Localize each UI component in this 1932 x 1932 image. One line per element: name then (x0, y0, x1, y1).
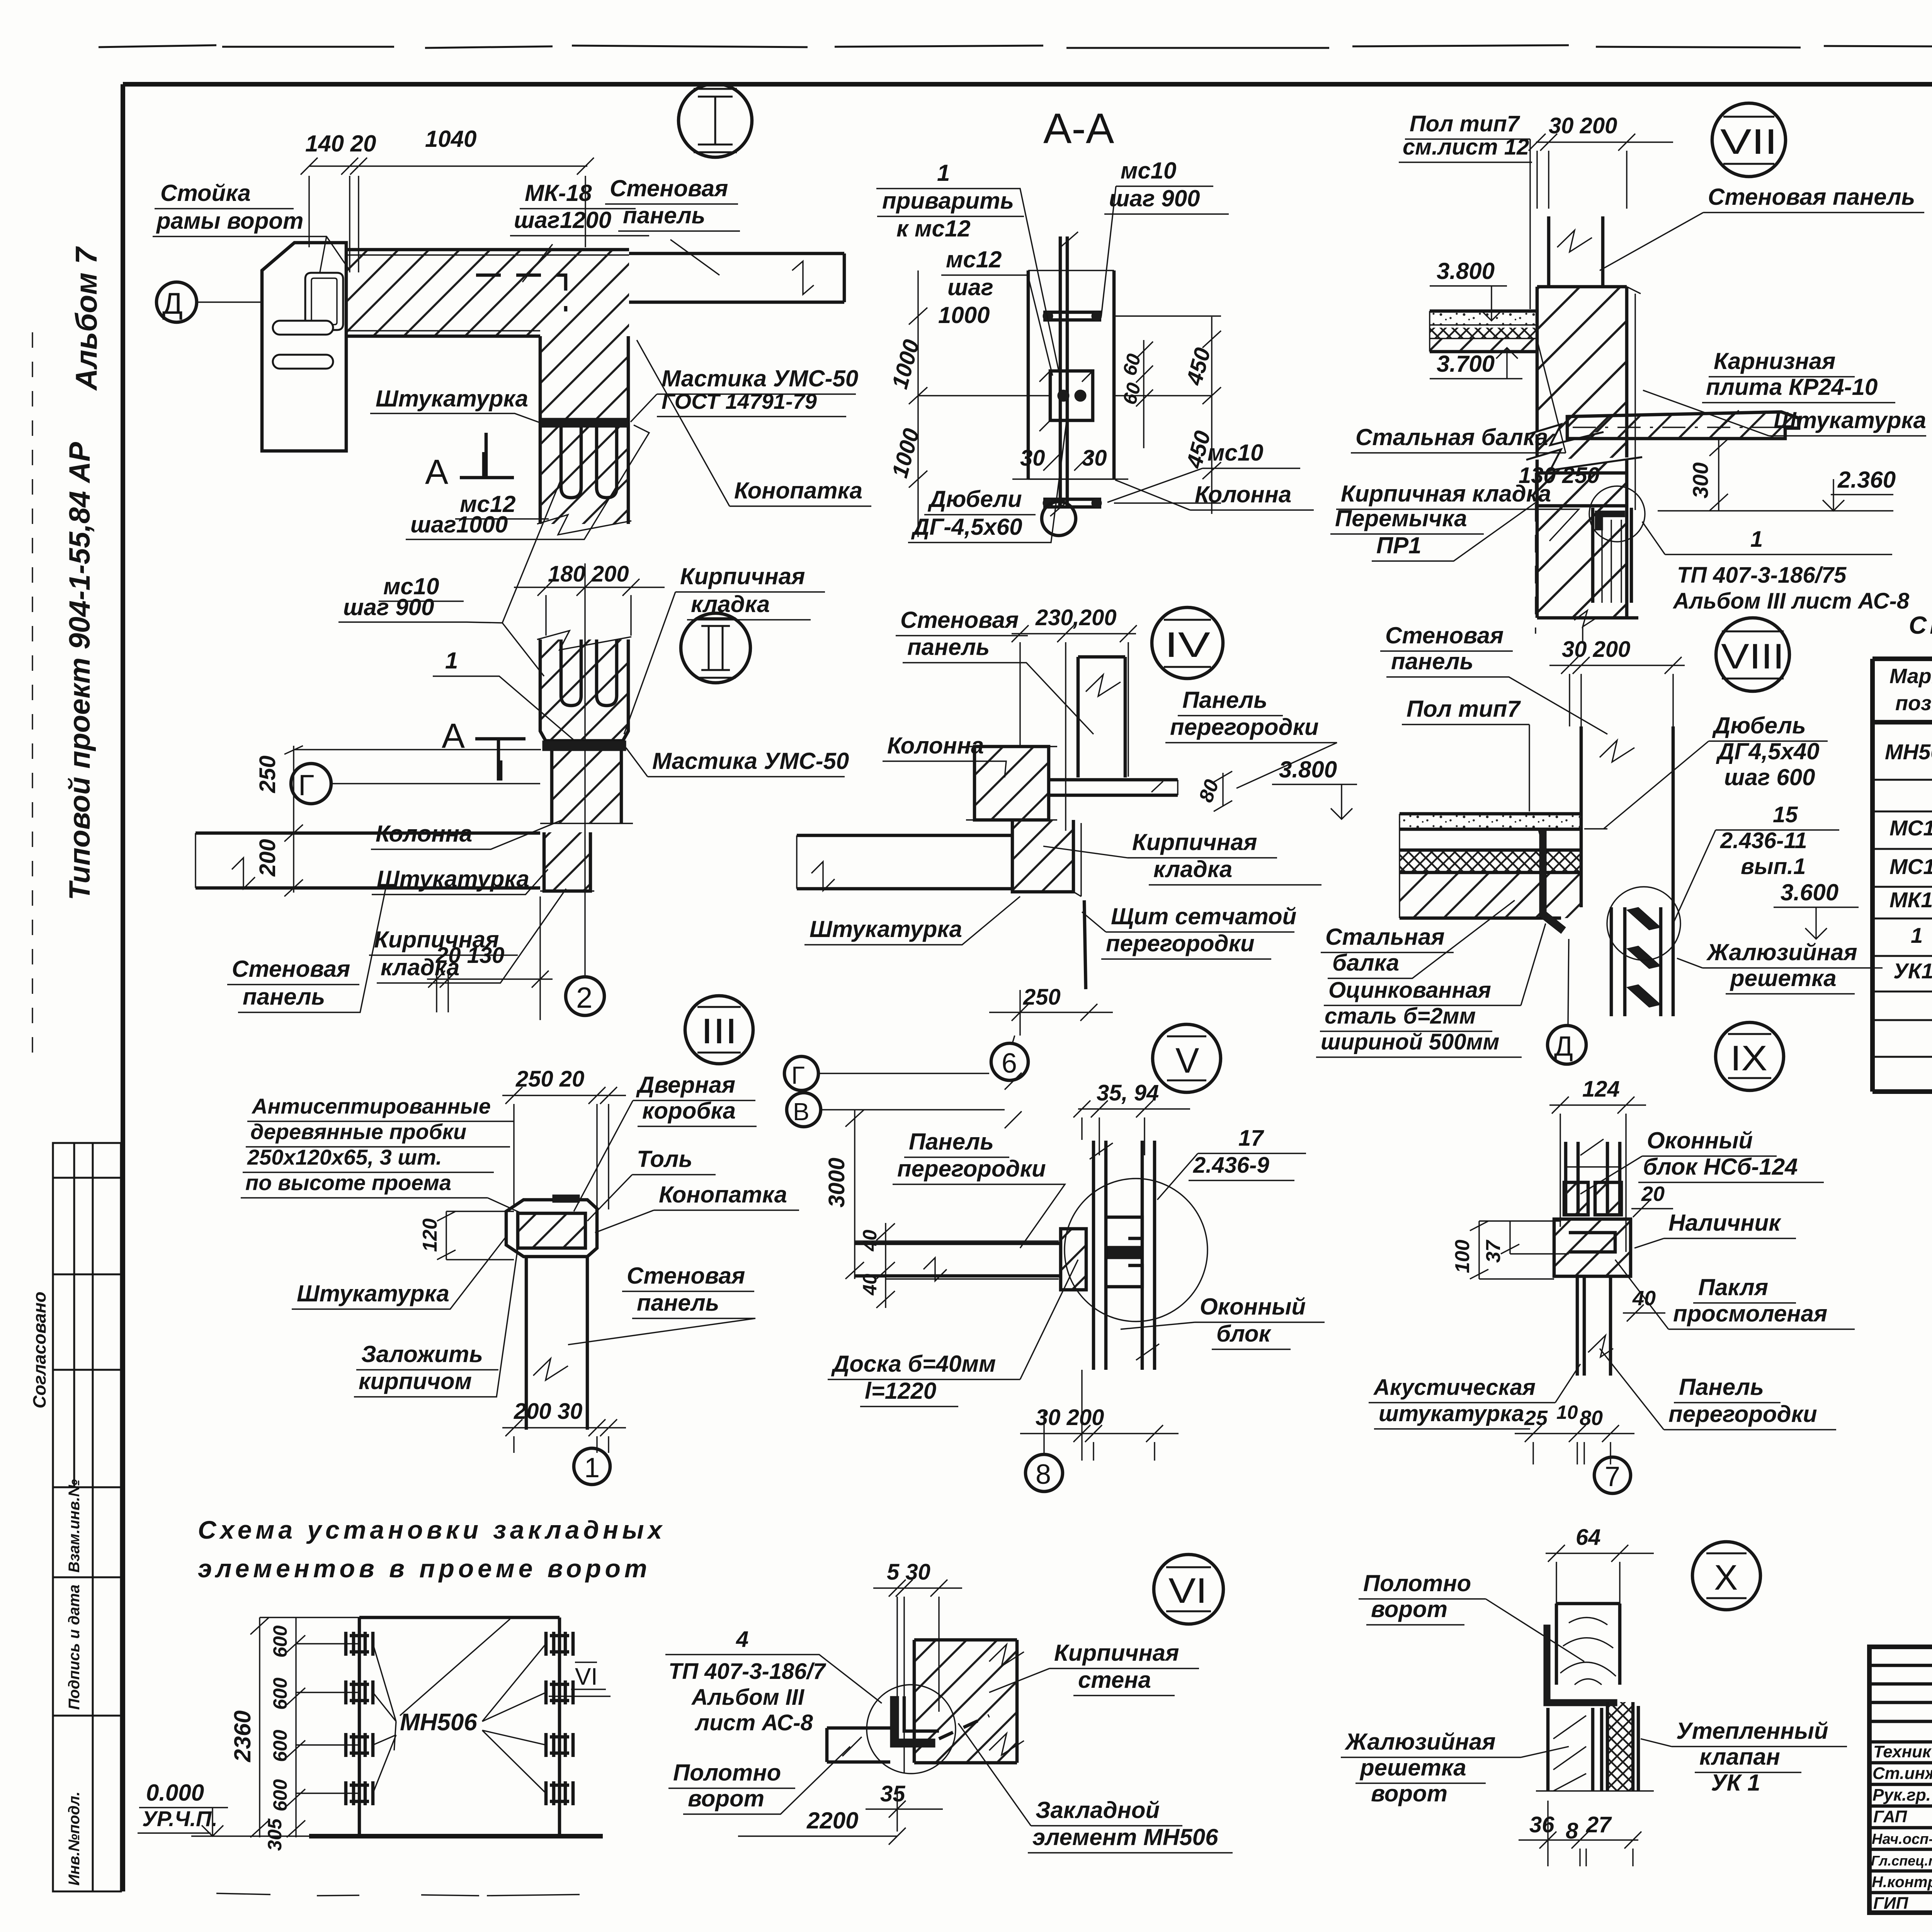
svg-text:МК-18: МК-18 (525, 180, 592, 206)
svg-text:шаг: шаг (947, 274, 993, 300)
svg-text:3.600: 3.600 (1781, 879, 1838, 905)
node circle D with line (156, 282, 197, 322)
node circle II (681, 613, 750, 683)
svg-text:Оконный: Оконный (1200, 1294, 1306, 1320)
node circles G and V (784, 1056, 818, 1090)
cornice plate (hatched) (1567, 412, 1799, 439)
svg-text:А: А (425, 453, 448, 492)
ref bubble 7 (1594, 1457, 1631, 1493)
svg-text:сталь б=2мм: сталь б=2мм (1325, 1003, 1476, 1029)
svg-text:шаг 900: шаг 900 (1109, 185, 1200, 211)
svg-text:ДГ4,5х40: ДГ4,5х40 (1716, 738, 1820, 764)
svg-text:3.700: 3.700 (1437, 351, 1495, 377)
slots in plate (273, 321, 333, 335)
svg-text:15: 15 (1773, 802, 1798, 827)
svg-text:УК1: УК1 (1893, 959, 1932, 983)
svg-text:2360: 2360 (230, 1711, 255, 1762)
svg-text:Щит сетчатой: Щит сетчатой (1111, 903, 1296, 929)
svg-text:4: 4 (736, 1627, 748, 1652)
svg-text:200 30: 200 30 (514, 1399, 582, 1424)
ragged scanned top edge line (99, 45, 1932, 48)
svg-text:200: 200 (255, 839, 280, 877)
svg-text:МС10: МС10 (1889, 816, 1932, 840)
svg-text:100: 100 (1451, 1240, 1474, 1273)
svg-text:10: 10 (1556, 1401, 1578, 1423)
svg-text:305: 305 (264, 1818, 286, 1851)
svg-text:клапан: клапан (1699, 1744, 1780, 1770)
svg-text:140 20: 140 20 (305, 131, 376, 156)
svg-text:35: 35 (880, 1781, 905, 1806)
svg-text:Кирпичная: Кирпичная (1132, 829, 1257, 855)
svg-text:Полотно: Полотно (673, 1760, 781, 1786)
svg-text:Кирпичная: Кирпичная (680, 563, 805, 589)
svg-text:Нач.осп-1: Нач.осп-1 (1872, 1831, 1932, 1847)
dashed axis (1535, 473, 1536, 634)
left stamp box: inventory column (53, 1479, 121, 1891)
partition panel vertical above (1078, 657, 1125, 777)
svg-text:1: 1 (937, 160, 950, 186)
svg-text:МН506: МН506 (400, 1709, 477, 1736)
vertical dim 1000 1000 (909, 270, 1050, 537)
svg-text:3000: 3000 (824, 1158, 849, 1207)
svg-text:элемент МН506: элемент МН506 (1032, 1824, 1218, 1850)
floor slab layers (1400, 814, 1581, 829)
svg-text:Антисептированные: Антисептированные (251, 1094, 491, 1118)
svg-text:1: 1 (584, 1452, 600, 1483)
svg-text:В: В (793, 1098, 810, 1126)
svg-text:балка: балка (1332, 950, 1399, 976)
window frame verticals below (1593, 508, 1631, 603)
svg-text:2: 2 (576, 981, 592, 1014)
svg-text:лист АС-8: лист АС-8 (694, 1710, 813, 1735)
column upper segment (hatched) (540, 336, 628, 418)
svg-text:2.436-9: 2.436-9 (1193, 1153, 1269, 1178)
svg-text:МН506: МН506 (1885, 740, 1932, 764)
svg-text:Пол тип7: Пол тип7 (1410, 111, 1520, 136)
svg-text:ГИП: ГИП (1873, 1894, 1909, 1913)
svg-text:250 20: 250 20 (515, 1066, 584, 1092)
steel angle dark (1544, 1625, 1617, 1706)
svg-text:250: 250 (1023, 985, 1061, 1010)
svg-text:перегородки: перегородки (1106, 930, 1255, 956)
brick wall hatched (914, 1640, 1017, 1763)
svg-text:шаг1200: шаг1200 (514, 207, 611, 233)
svg-text:Мастика УМС-50: Мастика УМС-50 (662, 366, 858, 391)
frame bottom (faint scan remnants) (216, 1893, 580, 1896)
svg-text:Н.контр.: Н.контр. (1872, 1874, 1932, 1891)
node circle III (685, 996, 753, 1064)
svg-text:панель: панель (1391, 648, 1473, 674)
svg-text:30 200: 30 200 (1036, 1405, 1104, 1430)
svg-text:блок НСб-124: блок НСб-124 (1643, 1154, 1798, 1180)
right dims 450 450 60 60 (1114, 316, 1221, 514)
svg-text:Пол тип7: Пол тип7 (1406, 696, 1521, 722)
break marks in wall (1526, 424, 1642, 470)
svg-text:Стеновая: Стеновая (610, 175, 728, 201)
svg-text:250: 250 (255, 755, 280, 793)
svg-text:25: 25 (1524, 1406, 1548, 1430)
svg-text:Дюбели: Дюбели (927, 486, 1022, 512)
svg-text:2200: 2200 (806, 1808, 858, 1833)
svg-text:Штукатурка: Штукатурка (810, 916, 962, 942)
UK klapan dark angle (1595, 511, 1625, 530)
svg-text:Типовой проект 904-1-55,84 АР: Типовой проект 904-1-55,84 АР (63, 442, 96, 900)
column hatched square (975, 747, 1049, 820)
zhalyuzi strip below (1548, 1708, 1602, 1791)
svg-text:80: 80 (1580, 1406, 1603, 1430)
svg-text:IX: IX (1730, 1039, 1767, 1078)
svg-text:3.800: 3.800 (1279, 757, 1337, 782)
svg-text:ТП 407-3-186/75: ТП 407-3-186/75 (1677, 563, 1847, 588)
svg-text:ТП 407-3-186/7: ТП 407-3-186/7 (668, 1659, 827, 1684)
floor slab layers left (1430, 311, 1537, 325)
svg-text:VIII: VIII (1721, 637, 1784, 676)
table grid (1872, 659, 1932, 1092)
svg-text:панель: панель (907, 634, 990, 660)
svg-text:1040: 1040 (425, 126, 476, 152)
svg-text:панель: панель (637, 1290, 719, 1316)
svg-text:деревянные пробки: деревянные пробки (250, 1119, 466, 1144)
svg-text:6: 6 (1002, 1048, 1017, 1079)
svg-text:230,200: 230,200 (1035, 605, 1117, 630)
svg-text:X: X (1714, 1558, 1738, 1597)
svg-text:Взам.инв.№: Взам.инв.№ (66, 1479, 83, 1573)
svg-text:шириной 500мм: шириной 500мм (1321, 1029, 1499, 1054)
peremychka slab lines (1537, 473, 1627, 506)
svg-text:решетка: решетка (1730, 965, 1837, 991)
svg-text:Рук.гр.: Рук.гр. (1872, 1786, 1931, 1804)
break mark bottom (1574, 611, 1596, 641)
axis line down to bubble 2 (584, 634, 585, 977)
brick L below column (1012, 820, 1073, 892)
wall panel strip to right (629, 253, 844, 302)
svg-text:коробка: коробка (642, 1098, 736, 1124)
detail circle big (1065, 1179, 1207, 1321)
left stamp box: Согласовано (29, 1143, 121, 1487)
svg-text:Схема установки закладных: Схема установки закладных (198, 1515, 666, 1544)
svg-text:120: 120 (419, 1218, 441, 1252)
svg-text:Оконный: Оконный (1647, 1128, 1753, 1153)
svg-text:Панель: Панель (1182, 687, 1267, 713)
svg-text:Штукатурка: Штукатурка (297, 1281, 449, 1306)
svg-text:VII: VII (1720, 122, 1777, 162)
svg-text:Гл.спец.то: Гл.спец.то (1871, 1853, 1932, 1869)
svg-text:Стеновая панель: Стеновая панель (1708, 184, 1915, 210)
wall panel above (white) (1549, 216, 1603, 287)
wood window sill hatched (1564, 1182, 1588, 1215)
node circle V (1153, 1024, 1221, 1092)
svg-text:перегородки: перегородки (897, 1156, 1046, 1182)
detail circle (1607, 887, 1680, 960)
svg-text:V: V (1175, 1041, 1199, 1080)
svg-text:перегородки: перегородки (1668, 1401, 1817, 1427)
svg-text:кирпичом: кирпичом (359, 1368, 472, 1394)
stakan segment with MC12 brackets (540, 427, 628, 524)
svg-text:просмоленая: просмоленая (1673, 1301, 1827, 1327)
svg-text:2.360: 2.360 (1837, 467, 1896, 493)
node circle VI (1154, 1554, 1223, 1624)
node circle X (1692, 1542, 1760, 1610)
gate leaf strip (827, 1728, 890, 1762)
svg-text:5 30: 5 30 (887, 1560, 930, 1585)
bottom weld plate (1043, 499, 1101, 507)
svg-text:8: 8 (1036, 1459, 1051, 1490)
svg-text:Согласовано: Согласовано (29, 1292, 49, 1408)
svg-text:Альбом III: Альбом III (691, 1685, 805, 1710)
node circle I (679, 84, 752, 157)
signature rows text (1871, 1742, 1932, 1913)
svg-text:Стеновая: Стеновая (900, 607, 1019, 633)
svg-text:ГОСТ 14791-79: ГОСТ 14791-79 (662, 389, 817, 413)
node circle G with line (291, 764, 331, 804)
break marks top/bottom (1028, 232, 1114, 516)
svg-text:Карнизная: Карнизная (1714, 348, 1835, 374)
svg-text:Стеновая: Стеновая (627, 1263, 745, 1289)
svg-text:Альбом III лист АС-8: Альбом III лист АС-8 (1672, 588, 1910, 614)
svg-text:Г: Г (298, 769, 314, 802)
svg-text:ворот: ворот (1371, 1596, 1447, 1622)
nalichnik hatched blocks (1554, 1219, 1631, 1276)
svg-text:блок: блок (1216, 1321, 1272, 1347)
svg-text:Стеновая: Стеновая (1385, 622, 1503, 648)
svg-text:шаг 600: шаг 600 (1724, 764, 1815, 790)
partition panel below (1577, 1276, 1611, 1376)
ref bubble 8 (1026, 1454, 1063, 1492)
node circle VIII (1716, 618, 1789, 691)
svg-text:МС12: МС12 (1889, 854, 1932, 879)
thin rod below (1084, 900, 1086, 989)
ref bubble D (1548, 1026, 1586, 1064)
svg-text:Пакля: Пакля (1698, 1274, 1768, 1300)
svg-text:180 200: 180 200 (548, 561, 629, 587)
wall masonry band vertical (1537, 287, 1627, 618)
ref bubble 6 (991, 1043, 1028, 1080)
svg-text:мс10: мс10 (1207, 440, 1264, 466)
door frame detail drawing (506, 1200, 597, 1257)
svg-text:приварить: приварить (882, 188, 1014, 214)
dim line (301, 158, 594, 272)
wall band horizontal (hatched) (347, 250, 629, 336)
wood gate leaf (grain) (1556, 1604, 1620, 1685)
svg-text:Полотно: Полотно (1363, 1570, 1471, 1596)
wood blocking at panel end (1061, 1229, 1086, 1290)
svg-text:стена: стена (1078, 1667, 1151, 1693)
svg-text:Колонна: Колонна (376, 821, 472, 847)
svg-text:37: 37 (1482, 1240, 1505, 1263)
svg-text:Штукатурка: Штукатурка (377, 866, 529, 892)
svg-text:см.лист 12: см.лист 12 (1403, 134, 1529, 160)
svg-text:Панель: Панель (1679, 1374, 1764, 1400)
svg-text:7: 7 (1605, 1461, 1620, 1492)
svg-text:рамы ворот: рамы ворот (156, 208, 303, 234)
svg-text:Марка: Марка (1889, 665, 1932, 688)
detail circle (1589, 486, 1645, 542)
svg-text:600: 600 (269, 1625, 291, 1658)
angle element dark (890, 1696, 935, 1747)
top weld plate (1043, 312, 1101, 320)
svg-text:3.800: 3.800 (1437, 258, 1495, 284)
svg-text:Панель: Панель (909, 1129, 994, 1155)
window block verticals (1094, 1141, 1155, 1370)
svg-text:кладка: кладка (691, 591, 770, 617)
svg-text:ворот: ворот (688, 1786, 764, 1811)
svg-text:Перемычка: Перемычка (1335, 505, 1467, 531)
signature table horizontals (1869, 1665, 1932, 1893)
svg-text:Дюбель: Дюбель (1712, 713, 1806, 738)
svg-text:Жалюзийная: Жалюзийная (1344, 1729, 1496, 1755)
zinc flashing Z (1538, 829, 1566, 934)
gate post plate (262, 243, 346, 451)
svg-text:УР.Ч.П.: УР.Ч.П. (142, 1806, 218, 1831)
dashed anchor in wall (939, 1716, 989, 1739)
svg-text:VI: VI (1168, 1571, 1207, 1611)
svg-text:штукатурка: штукатурка (1379, 1401, 1524, 1426)
bottom node circle (1042, 502, 1076, 536)
ref bubble 2 (566, 977, 604, 1015)
svg-text:Колонна: Колонна (887, 733, 984, 759)
klapan crosshatched strip (1607, 1702, 1633, 1791)
svg-text:600: 600 (269, 1779, 291, 1811)
svg-text:Инв.№подл.: Инв.№подл. (66, 1791, 83, 1886)
svg-text:Заложить: Заложить (361, 1341, 483, 1367)
svg-text:Наличник: Наличник (1668, 1210, 1781, 1236)
svg-text:Стеновая: Стеновая (232, 956, 350, 982)
node circle VII (1712, 103, 1786, 177)
svg-text:Акустическая: Акустическая (1373, 1375, 1536, 1400)
steel tube of gate post (305, 273, 343, 330)
svg-text:панель: панель (243, 984, 325, 1010)
svg-text:Закладной: Закладной (1036, 1797, 1160, 1823)
outer box (1869, 1647, 1932, 1913)
node circle IX (1716, 1022, 1784, 1090)
svg-text:Спецификация элементов к плану: Спецификация элементов к плану на отм.0.… (1909, 611, 1932, 639)
svg-text:УК 1: УК 1 (1711, 1770, 1760, 1796)
svg-text:17: 17 (1238, 1126, 1264, 1151)
wall panel below (526, 1257, 587, 1430)
column stakan second segment (hatched, U-channel) (540, 639, 628, 741)
svg-text:0.000: 0.000 (146, 1780, 204, 1806)
svg-text:250х120х65, 3 шт.: 250х120х65, 3 шт. (247, 1145, 442, 1169)
svg-text:мс10: мс10 (1121, 158, 1177, 184)
svg-text:Дверная: Дверная (636, 1072, 735, 1098)
svg-text:40: 40 (1632, 1287, 1656, 1310)
svg-text:Толь: Толь (637, 1146, 692, 1172)
svg-text:ворот: ворот (1371, 1781, 1447, 1806)
mastika dark strip I (540, 418, 628, 427)
svg-text:Кирпичная: Кирпичная (1054, 1640, 1179, 1666)
svg-text:Стальная балка: Стальная балка (1355, 424, 1548, 450)
gate frame (359, 1617, 560, 1835)
svg-text:1: 1 (1911, 923, 1923, 947)
svg-text:Оцинкованная: Оцинкованная (1328, 978, 1491, 1003)
detail circle (867, 1685, 956, 1774)
svg-text:Кирпичная кладка: Кирпичная кладка (1341, 481, 1551, 507)
dashed MK18 anchor (476, 275, 566, 311)
svg-text:Доска б=40мм: Доска б=40мм (831, 1351, 996, 1377)
svg-text:VI: VI (575, 1663, 598, 1690)
svg-text:решетка: решетка (1359, 1755, 1466, 1781)
wall panel strip left (797, 835, 1012, 889)
svg-text:элементов в проеме ворот: элементов в проеме ворот (198, 1554, 651, 1583)
column outline (1028, 236, 1114, 506)
svg-text:III: III (701, 1012, 737, 1051)
svg-text:ДГ-4,5х60: ДГ-4,5х60 (911, 514, 1022, 540)
svg-text:Д: Д (162, 286, 183, 320)
svg-text:поз.: поз. (1895, 692, 1932, 715)
brick column below (552, 751, 621, 823)
svg-text:30 200: 30 200 (1562, 637, 1630, 662)
svg-text:1: 1 (1750, 527, 1763, 552)
ground heavy line (309, 1834, 603, 1838)
svg-text:20 130: 20 130 (435, 943, 504, 968)
horizontal partition strip right (1049, 780, 1178, 795)
svg-text:шаг1000: шаг1000 (410, 512, 508, 537)
svg-text:30 200: 30 200 (1549, 113, 1617, 138)
window joint detail (1106, 1217, 1142, 1287)
svg-text:Стойка: Стойка (160, 180, 251, 206)
svg-text:l=1220: l=1220 (865, 1378, 936, 1404)
svg-text:кладка: кладка (1153, 856, 1232, 882)
svg-text:Штукатурка: Штукатурка (376, 386, 528, 412)
svg-text:перегородки: перегородки (1170, 714, 1319, 740)
svg-text:ПР1: ПР1 (1376, 532, 1422, 558)
svg-text:36: 36 (1529, 1812, 1554, 1837)
svg-text:к мс12: к мс12 (896, 216, 971, 241)
svg-text:панель: панель (623, 202, 705, 228)
svg-text:Подпись и дата: Подпись и дата (66, 1585, 83, 1710)
svg-text:27: 27 (1586, 1812, 1612, 1837)
left margin fold dashed line (32, 332, 33, 1059)
svg-text:вып.1: вып.1 (1741, 854, 1806, 879)
svg-text:мс12: мс12 (946, 247, 1002, 272)
svg-text:шаг 900: шаг 900 (343, 594, 434, 620)
svg-text:600: 600 (269, 1677, 291, 1710)
partition panel horizontal (855, 1243, 1061, 1276)
svg-text:IV: IV (1165, 625, 1210, 665)
svg-text:30: 30 (1082, 446, 1107, 471)
svg-text:ГАП: ГАП (1873, 1807, 1907, 1826)
svg-text:Жалюзийная: Жалюзийная (1706, 939, 1857, 965)
svg-text:1000: 1000 (938, 302, 990, 328)
svg-text:МК18: МК18 (1889, 888, 1932, 912)
svg-text:Мастика УМС-50: Мастика УМС-50 (652, 748, 849, 774)
svg-text:Техник: Техник (1873, 1742, 1932, 1761)
svg-text:20: 20 (1641, 1182, 1665, 1206)
svg-text:по высоте проема: по высоте проема (245, 1170, 451, 1195)
mastika dark strip II (543, 741, 626, 751)
mid plate MC12 (1050, 371, 1093, 420)
svg-text:1: 1 (445, 648, 458, 673)
svg-text:Конопатка: Конопатка (734, 478, 862, 503)
svg-text:Альбом 7: Альбом 7 (69, 246, 103, 391)
ref bubble 1 (574, 1448, 610, 1485)
node circle IV (1152, 607, 1223, 679)
svg-text:Д: Д (1554, 1031, 1573, 1062)
svg-text:Утепленный: Утепленный (1676, 1718, 1828, 1744)
svg-text:64: 64 (1576, 1525, 1601, 1550)
wall panel vertical (1581, 726, 1673, 907)
window block verticals (1566, 1142, 1620, 1215)
svg-text:Колонна: Колонна (1195, 481, 1291, 507)
svg-text:А-А: А-А (1043, 105, 1114, 152)
svg-text:2.436-11: 2.436-11 (1720, 828, 1807, 853)
svg-text:124: 124 (1582, 1077, 1620, 1102)
anchor marks left post (346, 1632, 573, 1805)
svg-text:Ст.инж.: Ст.инж. (1872, 1764, 1932, 1783)
svg-text:Стальная: Стальная (1325, 924, 1445, 950)
svg-text:Конопатка: Конопатка (659, 1182, 787, 1207)
svg-text:30: 30 (1020, 446, 1045, 471)
